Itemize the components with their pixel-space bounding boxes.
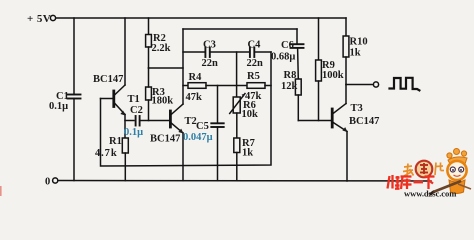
svg-text:0: 0 xyxy=(45,177,50,188)
wire T1 emitter xyxy=(124,115,126,139)
watermark character wo xyxy=(403,164,414,177)
resistor R3 xyxy=(146,87,152,100)
svg-text:0.1μ: 0.1μ xyxy=(124,127,143,138)
svg-text:T2: T2 xyxy=(185,116,197,127)
svg-text:www.dzsc.com: www.dzsc.com xyxy=(404,189,457,199)
0V terminal xyxy=(53,178,58,183)
resistor R8 xyxy=(295,79,301,95)
emitter arrow T2 xyxy=(178,129,183,134)
svg-text:BC147: BC147 xyxy=(349,116,379,127)
svg-text:C4: C4 xyxy=(248,40,262,51)
output terminal xyxy=(373,82,378,87)
capacitor C6 xyxy=(296,29,298,44)
svg-text:1k: 1k xyxy=(242,148,253,159)
resistor R9 xyxy=(318,18,320,60)
transistor T2 xyxy=(169,111,172,127)
wire twin-T top feed xyxy=(183,28,297,30)
svg-text:T3: T3 xyxy=(351,103,363,114)
capacitor C1 xyxy=(73,18,75,95)
svg-text:R5: R5 xyxy=(247,71,260,82)
resistor R7 xyxy=(234,138,240,153)
watermark red text yi xyxy=(414,181,424,184)
capacitor C3 xyxy=(183,51,204,53)
svg-text:100k: 100k xyxy=(322,70,344,81)
watermark red text wei xyxy=(388,175,400,189)
svg-text:BC147: BC147 xyxy=(93,74,123,85)
svg-text:10k: 10k xyxy=(242,109,259,120)
watermark mascot crown xyxy=(447,149,467,165)
wire T2 collector riser xyxy=(182,29,184,104)
emitter arrow T3 xyxy=(342,127,347,132)
capacitor C4 xyxy=(249,48,251,58)
resistor R1 xyxy=(122,138,128,153)
svg-text:0.047μ: 0.047μ xyxy=(183,132,213,143)
wire T3 collector xyxy=(345,85,347,104)
red edge smudge xyxy=(0,186,2,196)
svg-text:2.2k: 2.2k xyxy=(152,43,171,54)
+5V rail xyxy=(56,17,346,19)
svg-text:R1: R1 xyxy=(109,136,122,147)
wire T1 collector xyxy=(124,18,126,85)
svg-text:22n: 22n xyxy=(247,58,264,69)
feedback bus xyxy=(101,52,272,166)
wire T3 emitter xyxy=(346,132,348,182)
resistor R4 xyxy=(183,85,188,87)
transistor T3 xyxy=(331,109,334,127)
resistor R2 xyxy=(148,18,150,35)
mascot brush xyxy=(432,181,461,193)
resistor R5 xyxy=(247,83,265,89)
svg-text:+ 5V: + 5V xyxy=(27,13,51,25)
trimmer R6 xyxy=(236,52,238,97)
svg-text:47k: 47k xyxy=(186,92,203,103)
capacitor C5 xyxy=(217,86,219,124)
mascot eyes xyxy=(450,167,455,172)
wire T2 emitter drop xyxy=(182,133,184,181)
svg-text:R4: R4 xyxy=(189,72,203,83)
resistor R10 xyxy=(345,18,347,36)
+5V terminal xyxy=(50,15,55,20)
watermark character pian xyxy=(435,163,444,176)
wire output xyxy=(346,84,373,86)
watermark red text xia xyxy=(425,177,435,190)
svg-text:1k: 1k xyxy=(350,48,361,59)
svg-text:0.68μ: 0.68μ xyxy=(271,52,295,63)
watermark red text ku xyxy=(401,177,412,190)
wire R2/R3 junction to T2 collector xyxy=(149,67,184,69)
transistor T1 xyxy=(112,91,115,107)
square wave symbol xyxy=(390,78,420,91)
watermark stamp circle xyxy=(416,161,433,178)
svg-text:0.1μ: 0.1μ xyxy=(49,101,68,112)
0V rail xyxy=(58,180,431,183)
svg-text:C3: C3 xyxy=(203,40,216,51)
svg-text:BC147: BC147 xyxy=(150,134,180,145)
svg-text:C2: C2 xyxy=(130,105,143,116)
svg-text:R8: R8 xyxy=(284,70,297,81)
emitter arrow T1 xyxy=(120,111,125,116)
svg-text:22n: 22n xyxy=(202,58,219,69)
mascot body xyxy=(449,180,465,194)
svg-text:R10: R10 xyxy=(350,37,368,48)
capacitor C2 xyxy=(125,120,134,122)
svg-text:C5: C5 xyxy=(196,121,209,132)
svg-text:C6: C6 xyxy=(281,40,294,51)
wire T1 base xyxy=(101,98,114,100)
svg-text:4.7k: 4.7k xyxy=(95,148,118,159)
mascot mouth xyxy=(454,175,461,176)
watermark mascot head xyxy=(447,161,466,180)
svg-text:12k: 12k xyxy=(281,81,298,92)
wire T3 base line xyxy=(298,120,332,122)
svg-text:T1: T1 xyxy=(128,94,140,105)
svg-text:180k: 180k xyxy=(152,96,174,107)
